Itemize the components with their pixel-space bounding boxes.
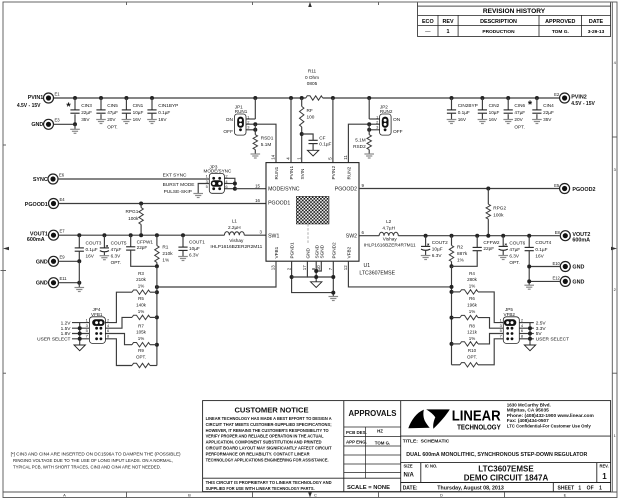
junction COUT3 top [77, 233, 81, 237]
svg-text:100k: 100k [493, 213, 504, 218]
svg-text:OPT.: OPT. [514, 124, 524, 129]
svg-text:Milpitas, CA 95035: Milpitas, CA 95035 [507, 408, 550, 413]
resistor RSD2 5.1M [367, 135, 371, 150]
wire L2 to VOUT2 [398, 235, 560, 237]
label JP5 pin numbers [500, 317, 524, 338]
svg-text:1: 1 [602, 472, 607, 481]
svg-text:16: 16 [255, 198, 260, 203]
svg-text:R7: R7 [138, 323, 144, 328]
wire PGOOD1 to IC [59, 203, 266, 205]
wire gnd node down [78, 261, 80, 287]
svg-text:16V: 16V [86, 254, 95, 259]
svg-text:PGOOD2: PGOOD2 [572, 187, 595, 193]
svg-text:22pF: 22pF [137, 245, 148, 250]
svg-text:SUPPLIED FOR USE WITH LINEAR T: SUPPLIED FOR USE WITH LINEAR TECHNOLOGY … [206, 486, 315, 491]
jumper JP1 RUN1 [235, 114, 247, 135]
junction COUT1 top [181, 233, 185, 237]
svg-text:E5: E5 [554, 183, 560, 188]
wire R4 to JP5 pin1 [478, 292, 503, 323]
wire to CIN1BYP [151, 98, 153, 110]
wire E9 to gnd node [59, 260, 80, 262]
wire to CFFW2 [476, 236, 478, 248]
svg-text:RUN2: RUN2 [380, 109, 393, 114]
svg-text:0.1µF: 0.1µF [158, 110, 170, 115]
signal ground under JP5 [524, 345, 535, 351]
svg-text:10µF: 10µF [133, 110, 144, 115]
svg-text:2.2µH: 2.2µH [228, 225, 241, 230]
ground under CIN1BYP [147, 120, 157, 124]
wire SGND pin 10 [316, 261, 321, 271]
junction E10 gnd node [527, 265, 531, 269]
svg-text:CIN6: CIN6 [514, 103, 525, 108]
svg-text:1%: 1% [469, 309, 476, 314]
capacitor CIN4 (polarized) [532, 110, 541, 113]
junction RPG1 top [139, 202, 143, 206]
wire bus to JP2 pin1 [368, 98, 370, 119]
resistor R3 210k [132, 290, 150, 294]
svg-text:Thursday, August 08, 2013: Thursday, August 08, 2013 [437, 486, 504, 492]
svg-text:L1: L1 [232, 219, 238, 224]
svg-text:1.5V: 1.5V [61, 326, 72, 332]
junction CIN2BYP top [450, 96, 454, 100]
svg-text:CIN4: CIN4 [543, 103, 554, 108]
wire R5 to JP4 pin4 [105, 317, 132, 328]
wire SGND pin 8 down [315, 261, 317, 282]
wire R10 to JP5 pin7 [478, 339, 503, 365]
wire to CIN1 [125, 98, 127, 110]
svg-text:1: 1 [447, 29, 450, 35]
svg-text:COUT1: COUT1 [189, 240, 205, 245]
junction COUT4 top [527, 234, 531, 238]
svg-text:10µF: 10µF [432, 247, 443, 252]
zone numbers right [614, 60, 617, 438]
svg-text:ECO: ECO [422, 19, 434, 25]
capacitor CIN2BYP [447, 110, 456, 113]
svg-text:IC NO.: IC NO. [425, 463, 438, 468]
junction JP2 to bus [367, 96, 371, 100]
jumper JP2 RUN2 [380, 114, 392, 135]
signal ground under SGND [311, 282, 322, 288]
svg-text:GND: GND [36, 259, 48, 265]
svg-text:DUAL 600mA MONOLITHIC, SYNCHRO: DUAL 600mA MONOLITHIC, SYNCHRONOUS STEP-… [406, 452, 588, 458]
terminal E11 GND [49, 278, 59, 288]
wire JP5 ground collector [529, 323, 531, 345]
ground under CIN2 [478, 120, 488, 124]
junction CIN6 top [506, 96, 510, 100]
revision history table [418, 3, 611, 37]
svg-text:R11: R11 [308, 69, 317, 74]
svg-text:887k: 887k [457, 251, 468, 256]
svg-text:TOM G.: TOM G. [552, 29, 569, 35]
svg-text:SW2: SW2 [346, 234, 357, 240]
svg-text:R2: R2 [457, 244, 463, 249]
svg-text:OFF: OFF [393, 129, 403, 135]
svg-text:B: B [188, 492, 191, 497]
wire COUT6 to ground [502, 251, 504, 256]
wire RSD1 to ground [254, 150, 256, 154]
svg-text:1%: 1% [138, 336, 145, 341]
wire to COUT1 [182, 235, 184, 247]
svg-text:0805: 0805 [307, 81, 318, 86]
resistor RPG2 100k [486, 204, 490, 219]
junction FB1 top [155, 264, 159, 268]
svg-text:E7: E7 [60, 229, 66, 234]
svg-text:USER SELECT: USER SELECT [536, 337, 569, 343]
wire CF to ground [312, 144, 314, 151]
ground under COUT2 [421, 256, 431, 260]
wire to ground [74, 124, 76, 129]
junction PGND1 rail [290, 275, 294, 279]
wire R9 to JP4 pin8 [105, 339, 132, 366]
wire FB1 bus [156, 266, 158, 365]
svg-text:APP ENG.: APP ENG. [346, 440, 367, 445]
svg-text:35V: 35V [81, 117, 90, 122]
svg-text:APPROVALS: APPROVALS [349, 409, 397, 418]
ground under COUT6 [498, 256, 508, 260]
svg-text:1.2V: 1.2V [61, 321, 72, 327]
resistor R2 887k [449, 245, 453, 261]
junction RF top [300, 96, 304, 100]
wire R2 to FB2 node [451, 262, 453, 267]
svg-text:PVIN2: PVIN2 [571, 95, 587, 101]
svg-text:ON: ON [393, 117, 401, 123]
wire to COUT5 [103, 235, 105, 248]
wire E10 to gnd node [529, 266, 560, 268]
wire COUT2 to ground [425, 251, 427, 256]
ground under RSD1 [251, 154, 261, 158]
junction VFB2/FB2 bus [450, 285, 454, 289]
resistor RSD1 5.1M [253, 135, 257, 150]
dashed line pad to GND pin [307, 224, 309, 245]
junction R1 top [155, 233, 159, 237]
svg-text:13: 13 [271, 265, 276, 270]
wire R8 to JP5 pin5 [478, 334, 503, 344]
svg-text:16V: 16V [489, 117, 498, 122]
svg-text:35V: 35V [543, 117, 552, 122]
svg-text:GND: GND [306, 247, 311, 258]
wire to CIN3 [74, 98, 76, 110]
wire to CIN2 [481, 98, 483, 110]
svg-text:196k: 196k [467, 303, 478, 308]
svg-text:Vishay: Vishay [383, 237, 398, 242]
wire SYNC to JP3 [58, 178, 209, 180]
wire JP4 ground collector [79, 323, 81, 345]
exposed pad (hatched) [296, 196, 329, 224]
wire CIN5 to ground [100, 114, 102, 119]
svg-text:LINEAR TECHNOLOGY HAS MADE A B: LINEAR TECHNOLOGY HAS MADE A BEST EFFORT… [206, 416, 333, 421]
junction E9 gnd node [77, 259, 81, 263]
signal ground under CF [307, 150, 318, 156]
junction COUT2 top [424, 234, 428, 238]
signal ground under JP4 [74, 345, 85, 351]
wire to CIN4 [536, 98, 538, 110]
svg-text:RSD1: RSD1 [261, 136, 274, 141]
wire JP4 pin5 [72, 333, 89, 335]
wire to CIN2BYP [451, 98, 453, 110]
wire JP4 pin1 [72, 322, 89, 324]
junction PVIN2 pin [331, 96, 335, 100]
svg-text:CIN2: CIN2 [489, 103, 500, 108]
wire L1 to SW1 [244, 234, 266, 236]
svg-text:Phone: (408)432-1900 www.lin: Phone: (408)432-1900 www.linear.com [507, 413, 594, 418]
svg-text:LTC Confidential-For Customer: LTC Confidential-For Customer Use Only [507, 424, 592, 429]
ground under CIN6 [503, 120, 513, 124]
wire JP3 to MODE/SYNC pin [235, 188, 266, 190]
ground under CIN4 [532, 120, 542, 124]
junction RPG1 bottom [139, 233, 143, 237]
svg-text:2.5V: 2.5V [536, 321, 547, 327]
svg-text:600mA: 600mA [572, 237, 590, 243]
svg-text:E11: E11 [60, 276, 68, 281]
junction R5/FB1 [155, 315, 159, 319]
junction R3/FB1 [155, 290, 159, 294]
terminal E12 GND [560, 276, 570, 286]
svg-text:6.3V: 6.3V [189, 253, 200, 258]
wire CFPW1 to FB node [131, 250, 157, 266]
svg-text:VFB1: VFB1 [274, 246, 279, 258]
junction COUT6 top [501, 234, 505, 238]
svg-text:THIS CIRCUIT IS PROPRIETARY TO: THIS CIRCUIT IS PROPRIETARY TO LINEAR TE… [206, 480, 332, 485]
svg-text:R8: R8 [469, 323, 475, 328]
jumper JP5 VFB2 [503, 317, 519, 344]
terminal E1 PVIN1 [44, 93, 54, 103]
svg-text:RUN1: RUN1 [235, 109, 248, 114]
capacitor CIN3 (polarized) [70, 110, 79, 113]
wire VOUT1 to L1 [59, 234, 225, 236]
svg-text:SYNC: SYNC [33, 177, 48, 183]
wire CIN1 to ground [125, 113, 127, 119]
wire JP1 pin3 [246, 129, 255, 131]
svg-text:GND: GND [36, 281, 48, 287]
svg-text:APPROVED: APPROVED [545, 19, 575, 25]
inductor L1 2.2uH [224, 232, 244, 236]
wire to COUT4 [528, 236, 530, 248]
svg-text:0.1µF: 0.1µF [458, 110, 470, 115]
svg-text:CF: CF [319, 135, 325, 140]
capacitor COUT2 (polarized) [421, 244, 430, 251]
svg-text:COUT4: COUT4 [535, 240, 551, 245]
resistor R10 OPT [460, 363, 478, 367]
capacitor CFFW2 [473, 247, 482, 250]
junction E11 gnd node [77, 281, 81, 285]
svg-text:REVISION HISTORY: REVISION HISTORY [483, 8, 546, 15]
junction JP3 pin6 [233, 187, 237, 191]
svg-text:16V: 16V [535, 254, 544, 259]
wire CIN3 to GND node [74, 114, 76, 124]
svg-text:OPT.: OPT. [509, 260, 519, 265]
op-amp U1 LTC3607EMSE IC body [266, 163, 359, 262]
svg-text:RF: RF [307, 108, 313, 113]
wire E11 to gnd node [59, 282, 80, 284]
svg-text:E12: E12 [552, 276, 560, 281]
terminal E2 PVIN2 [560, 93, 570, 103]
svg-text:RUN1: RUN1 [274, 166, 279, 179]
svg-text:20V: 20V [514, 117, 523, 122]
junction CIN5 top [99, 96, 103, 100]
svg-text:MODE/SYNC: MODE/SYNC [268, 187, 300, 193]
resistor R9 OPT [132, 363, 150, 367]
wire to R2 [451, 236, 453, 246]
terminal E10 GND [560, 262, 570, 272]
svg-text:CUSTOMER NOTICE: CUSTOMER NOTICE [234, 405, 308, 414]
wire RF to SVIN pin [301, 127, 303, 163]
label JP1 pin numbers [247, 114, 250, 129]
wire to RSD1 [254, 124, 256, 135]
wire bus to JP1 pin1 [254, 98, 256, 119]
svg-text:LTC3607EMSE: LTC3607EMSE [359, 270, 395, 276]
wire JP2 pin2 to RUN2 [348, 124, 379, 162]
svg-text:3-29-13: 3-29-13 [588, 29, 605, 35]
svg-text:R4: R4 [469, 271, 475, 276]
wire PVIN2 bus [323, 97, 560, 99]
capacitor COUT6 (polarized) [499, 244, 508, 251]
svg-text:17: 17 [302, 265, 307, 270]
svg-text:1%: 1% [457, 257, 464, 262]
svg-text:CIN1BYP: CIN1BYP [158, 103, 178, 108]
svg-text:DEMO CIRCUIT 1847A: DEMO CIRCUIT 1847A [464, 474, 549, 483]
junction PGND2 rail [331, 275, 335, 279]
svg-text:IHLP1616BZER4R7M11: IHLP1616BZER4R7M11 [364, 243, 416, 249]
approvals table lines [344, 427, 401, 478]
svg-text:LTC3607EMSE: LTC3607EMSE [478, 465, 534, 474]
svg-text:VERIFY PROPER AND RELIABLE OPE: VERIFY PROPER AND RELIABLE OPERATION IN … [206, 434, 324, 439]
svg-text:22µF: 22µF [543, 110, 554, 115]
capacitor CF [309, 140, 318, 143]
svg-text:OPT.: OPT. [467, 355, 477, 360]
svg-text:1%: 1% [138, 284, 145, 289]
wire R1 to FB node [156, 262, 158, 266]
wire to RSD2 [368, 124, 370, 135]
svg-text:0.1µF: 0.1µF [86, 247, 98, 252]
svg-text:RSD2: RSD2 [353, 144, 366, 149]
svg-text:HZ: HZ [377, 428, 383, 433]
svg-text:PVIN1: PVIN1 [28, 95, 44, 101]
svg-text:L2: L2 [386, 219, 392, 224]
svg-text:22µF: 22µF [81, 110, 92, 115]
svg-text:1%: 1% [469, 336, 476, 341]
svg-text:TITLE: SCHEMATIC: TITLE: SCHEMATIC [403, 439, 450, 445]
wire PGND1 down [292, 261, 334, 292]
junction R2 top [450, 234, 454, 238]
terminal E5 PGOOD2 [560, 184, 570, 194]
junction CIN1 top [124, 96, 128, 100]
jumper JP4 VFB1 [89, 317, 105, 344]
junction JP2 pin3/RSD2 [367, 128, 371, 132]
svg-text:PERFORMANCE OR RELIABILITY. C: PERFORMANCE OR RELIABILITY. CONTACT LINE… [206, 451, 311, 456]
jumper JP3 MODE/SYNC [209, 173, 224, 193]
svg-text:COUT6: COUT6 [509, 241, 525, 246]
svg-text:14: 14 [271, 154, 276, 159]
svg-text:R5: R5 [138, 296, 144, 301]
svg-text:R3: R3 [138, 271, 144, 276]
junction R4/FB2 [450, 290, 454, 294]
svg-text:OPT.: OPT. [136, 355, 146, 360]
wire RSD2 to ground [368, 150, 370, 154]
svg-text:5V: 5V [536, 331, 543, 337]
svg-text:CIN3: CIN3 [81, 103, 92, 108]
resistor R6 196k [460, 315, 478, 319]
svg-text:47µF: 47µF [514, 110, 525, 115]
svg-text:PGOOD1: PGOOD1 [268, 200, 290, 206]
wire RPG2 to VOUT2 [487, 219, 489, 236]
capacitor CIN1BYP [147, 110, 156, 113]
svg-text:CIRCUIT THAT MEETS CUSTOMER-SU: CIRCUIT THAT MEETS CUSTOMER-SUPPLIED SPE… [206, 422, 333, 427]
capacitor CIN2 [478, 110, 487, 113]
wire CIN2 to ground [481, 113, 483, 119]
junction CIN4 top [535, 96, 539, 100]
svg-text:SW1: SW1 [268, 234, 279, 240]
svg-text:REV: REV [442, 19, 453, 25]
svg-text:GND: GND [572, 279, 584, 285]
wire R4 to bus [452, 291, 461, 293]
capacitor COUT1 [178, 247, 187, 250]
svg-text:DESCRIPTION: DESCRIPTION [480, 19, 517, 25]
svg-text:PGND2: PGND2 [331, 242, 336, 259]
revision history text [422, 8, 605, 35]
resistor RPG1 100k [139, 208, 143, 225]
svg-text:TYPICAL PCB, WITH SHORT TRACES: TYPICAL PCB, WITH SHORT TRACES, CIN3 AND… [13, 465, 161, 470]
svg-text:U1: U1 [364, 263, 371, 269]
svg-text:10µF: 10µF [489, 110, 500, 115]
wire JP3 pin6 [224, 188, 235, 190]
wire PVIN1 bus [54, 97, 306, 99]
svg-text:1%: 1% [162, 258, 169, 263]
wire PGOOD2 to E5 [359, 188, 559, 190]
wire R3 to JP4 pin2 [105, 292, 132, 322]
svg-text:PULSE-SKIP: PULSE-SKIP [164, 189, 192, 195]
wire bus to RF [301, 98, 303, 106]
svg-text:100: 100 [307, 115, 315, 120]
svg-text:RINGING VOLTAGE DUE TO THE USE: RINGING VOLTAGE DUE TO THE USE OF LONG I… [13, 458, 173, 463]
svg-text:SGND: SGND [319, 244, 324, 258]
svg-text:IHLP1616BZER2R2M11: IHLP1616BZER2R2M11 [210, 244, 262, 250]
resistor R5 140k [132, 315, 150, 319]
wire CIN4 to ground [536, 114, 538, 119]
wire bus to PVIN2 pin [332, 98, 334, 163]
wire CIN6 to ground [507, 114, 509, 119]
junction JP5 gnd 3 [528, 337, 532, 341]
wire R7 to bus [150, 344, 157, 346]
svg-text:DATE: DATE [589, 19, 604, 25]
svg-text:E4: E4 [60, 197, 66, 202]
resistor R8 121k [460, 342, 478, 346]
svg-text:PGOOD1: PGOOD1 [25, 202, 48, 208]
wire E12 to gnd node [529, 280, 560, 282]
wire to CF [302, 134, 313, 140]
inductor L2 4.7uH [379, 232, 398, 235]
power ground under PGND2 [329, 297, 339, 301]
junction JP1 pin2/RSD1 [253, 122, 257, 126]
svg-text:1%: 1% [138, 309, 145, 314]
svg-text:4.5V - 15V: 4.5V - 15V [17, 103, 41, 109]
capacitor COUT5 (polarized) [100, 245, 109, 252]
wire COUT1 to ground [182, 250, 184, 256]
junction E12 gnd node [527, 279, 531, 283]
wire R10 to bus [452, 364, 461, 366]
svg-text:140k: 140k [136, 303, 147, 308]
wire JP3 pin2 [224, 178, 235, 188]
wire VFB2 pin to FB2 node [348, 261, 451, 287]
svg-text:*: * [528, 99, 533, 111]
svg-text:E: E [564, 492, 567, 497]
svg-text:COUT5: COUT5 [111, 241, 127, 246]
svg-text:USER SELECT: USER SELECT [37, 337, 70, 343]
svg-text:VFB2: VFB2 [347, 246, 352, 258]
resistor R7 105k [132, 343, 150, 347]
svg-text:0 Ohm: 0 Ohm [305, 75, 319, 80]
svg-text:SIZE: SIZE [404, 463, 413, 468]
capacitor CFPW1 [126, 247, 135, 250]
